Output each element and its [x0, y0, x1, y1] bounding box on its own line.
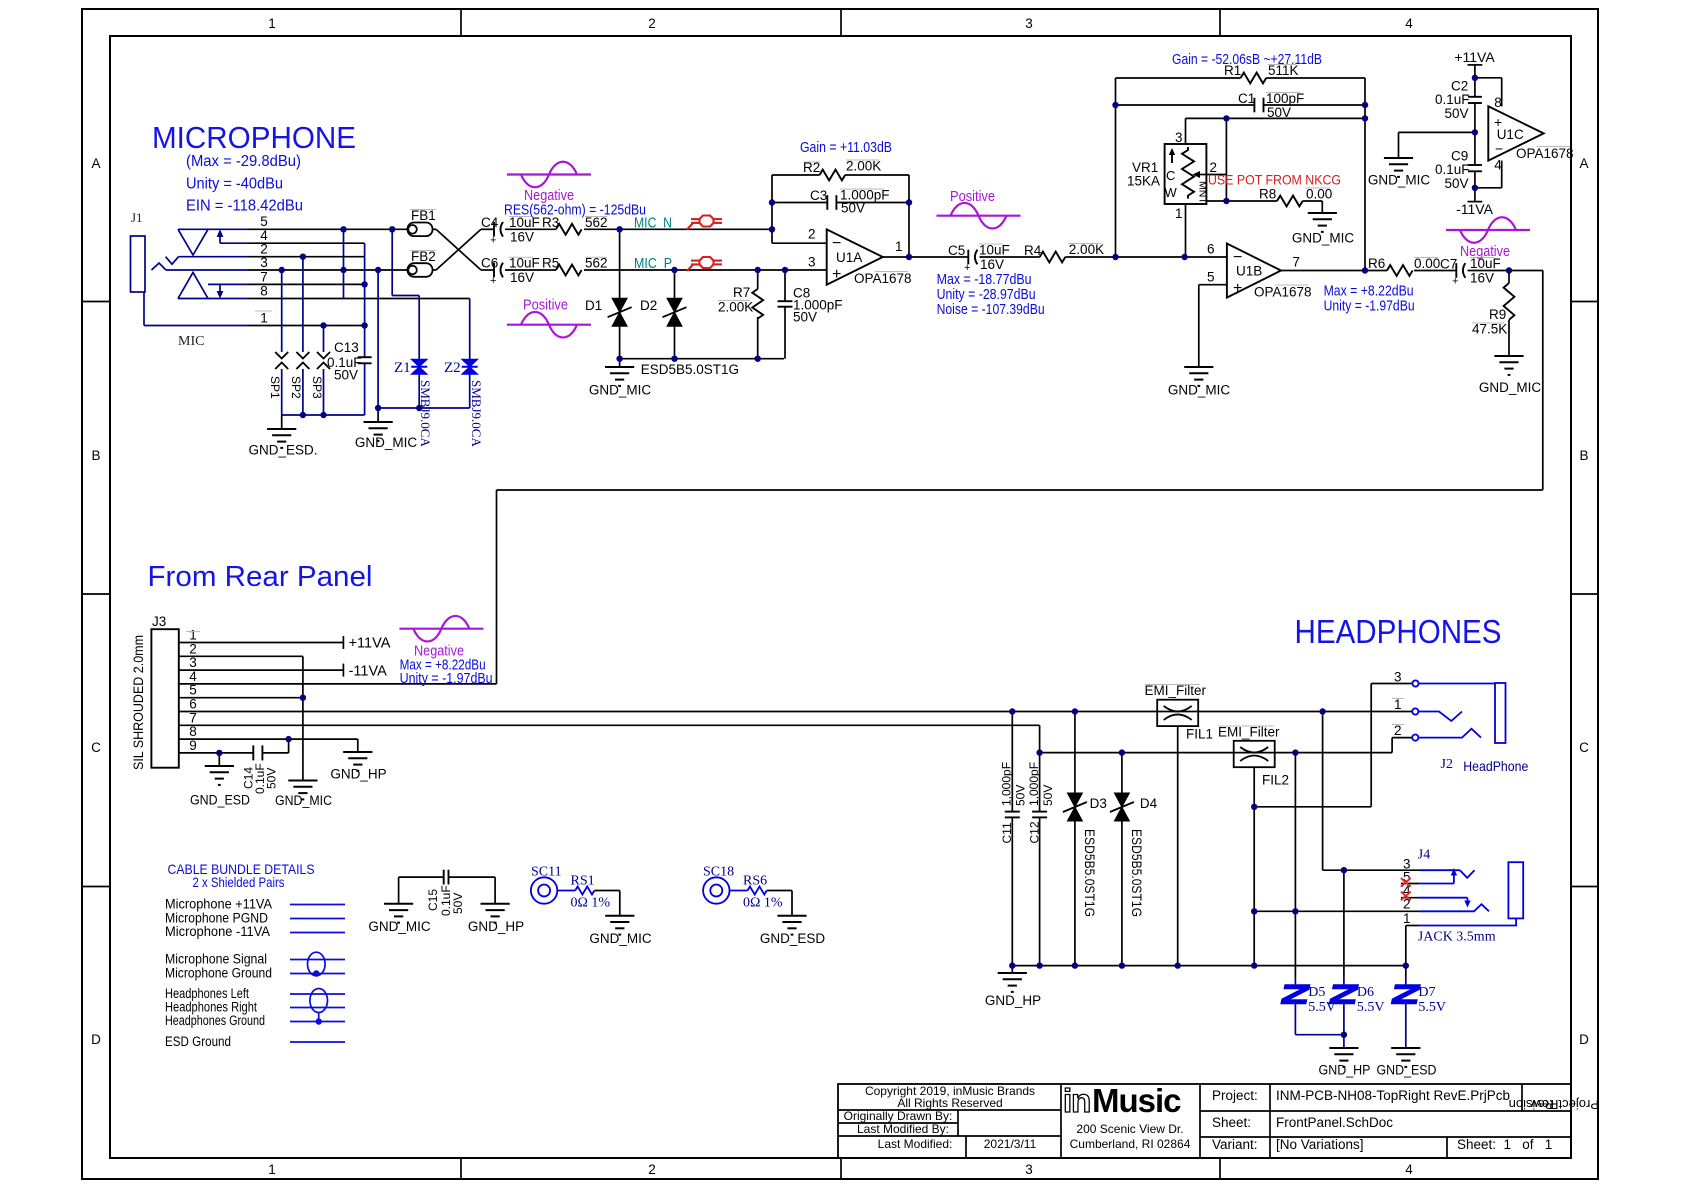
svg-text:Last Modified By:: Last Modified By:: [857, 1122, 949, 1136]
svg-text:B: B: [1579, 448, 1588, 463]
svg-text:Positive: Positive: [950, 188, 995, 205]
svg-text:Variant:: Variant:: [1212, 1137, 1258, 1152]
svg-text:GND_HP: GND_HP: [468, 919, 524, 934]
svg-text:HEADPHONES: HEADPHONES: [1295, 613, 1502, 650]
svg-text:SMBJ9.0CA: SMBJ9.0CA: [418, 380, 433, 447]
svg-text:50V: 50V: [793, 310, 817, 325]
svg-text:EMI_Filter: EMI_Filter: [1218, 725, 1280, 740]
svg-text:Gain = +11.03dB: Gain = +11.03dB: [800, 139, 892, 156]
svg-text:1: 1: [189, 628, 197, 643]
svg-text:5: 5: [1207, 270, 1215, 285]
svg-text:FB2: FB2: [411, 249, 436, 264]
svg-text:Microphone +11VA: Microphone +11VA: [165, 897, 272, 912]
svg-text:Last Modified:: Last Modified:: [878, 1137, 953, 1151]
svg-text:GND_MIC: GND_MIC: [1479, 380, 1542, 395]
svg-text:50V: 50V: [265, 768, 279, 789]
svg-text:16V: 16V: [980, 257, 1004, 272]
svg-text:C: C: [91, 740, 101, 755]
svg-text:0Ω 1%: 0Ω 1%: [571, 896, 611, 911]
svg-text:OPA1678: OPA1678: [1254, 285, 1312, 300]
svg-text:1: 1: [1403, 911, 1411, 926]
svg-text:-11VA: -11VA: [349, 663, 387, 679]
svg-text:RS6: RS6: [743, 874, 767, 889]
svg-text:3: 3: [1175, 130, 1183, 145]
svg-text:All Rights Reserved: All Rights Reserved: [897, 1096, 1002, 1110]
svg-text:8: 8: [1494, 95, 1502, 110]
svg-text:ESD5B5.0ST1G: ESD5B5.0ST1G: [1129, 829, 1144, 917]
svg-text:D7: D7: [1418, 985, 1435, 1000]
svg-text:R6: R6: [1368, 256, 1385, 271]
svg-text:50V: 50V: [1445, 106, 1469, 121]
svg-text:GND_MIC: GND_MIC: [355, 435, 418, 450]
svg-text:50V: 50V: [1445, 176, 1469, 191]
svg-text:GND_HP: GND_HP: [985, 993, 1041, 1008]
svg-text:+: +: [490, 275, 496, 287]
svg-text:−: −: [1495, 141, 1503, 157]
svg-text:R4: R4: [1024, 243, 1042, 258]
svg-text:FIL1: FIL1: [1186, 727, 1213, 742]
svg-text:C4: C4: [481, 215, 499, 230]
svg-text:2: 2: [1394, 723, 1402, 738]
svg-text:C15: C15: [426, 889, 440, 911]
svg-text:From Rear Panel: From Rear Panel: [148, 561, 373, 593]
svg-text:2.00K: 2.00K: [718, 300, 753, 315]
svg-text:J2: J2: [1441, 757, 1453, 772]
svg-text:W: W: [1165, 185, 1178, 200]
svg-text:MNT: MNT: [1197, 181, 1209, 204]
svg-text:0.00: 0.00: [1306, 187, 1332, 202]
svg-text:GND_MIC: GND_MIC: [275, 793, 332, 808]
svg-text:1: 1: [268, 16, 276, 31]
svg-text:50V: 50V: [451, 893, 465, 914]
svg-text:4: 4: [1405, 1162, 1413, 1177]
svg-text:4: 4: [189, 669, 197, 684]
svg-text:Music: Music: [1092, 1082, 1181, 1119]
svg-text:6: 6: [1207, 242, 1215, 257]
svg-text:2: 2: [648, 1162, 656, 1177]
svg-text:R9: R9: [1489, 307, 1506, 322]
svg-text:Rev: Rev: [1530, 1097, 1554, 1112]
svg-text:Z2: Z2: [444, 360, 461, 376]
svg-text:Unity = -1.97dBu: Unity = -1.97dBu: [1324, 298, 1415, 315]
svg-text:Positive: Positive: [523, 297, 568, 314]
svg-text:-11VA: -11VA: [1456, 201, 1493, 217]
svg-text:4: 4: [1405, 16, 1413, 31]
svg-text:INM-PCB-NH08-TopRight RevE.Prj: INM-PCB-NH08-TopRight RevE.PrjPcb: [1276, 1088, 1510, 1103]
svg-text:R8: R8: [1259, 187, 1276, 202]
svg-text:OPA1678: OPA1678: [1516, 146, 1574, 161]
svg-text:SMBJ9.0CA: SMBJ9.0CA: [469, 380, 484, 447]
svg-text:7: 7: [1292, 255, 1300, 270]
svg-text:+: +: [832, 266, 841, 283]
svg-text:6: 6: [189, 697, 197, 712]
svg-text:8: 8: [189, 724, 197, 739]
svg-text:USE POT FROM NKCG: USE POT FROM NKCG: [1208, 172, 1341, 188]
svg-text:C13: C13: [334, 340, 359, 355]
svg-text:A: A: [1579, 156, 1588, 171]
svg-text:Microphone Ground: Microphone Ground: [165, 966, 272, 981]
svg-text:FrontPanel.SchDoc: FrontPanel.SchDoc: [1276, 1115, 1393, 1130]
svg-text:JACK 3.5mm: JACK 3.5mm: [1418, 930, 1496, 945]
svg-text:Sheet: 1 of 1: Sheet: 1 of 1: [1457, 1137, 1552, 1152]
svg-text:MICROPHONE: MICROPHONE: [152, 120, 356, 155]
svg-text:1: 1: [895, 239, 903, 254]
svg-text:D2: D2: [640, 298, 657, 313]
svg-text:Originally Drawn By:: Originally Drawn By:: [844, 1109, 953, 1123]
svg-text:50V: 50V: [334, 368, 358, 383]
svg-text:Z1: Z1: [394, 360, 411, 376]
svg-text:[No Variations]: [No Variations]: [1276, 1137, 1364, 1152]
svg-text:16V: 16V: [510, 230, 534, 245]
svg-text:2.00K: 2.00K: [846, 159, 881, 174]
svg-text:in: in: [1063, 1082, 1090, 1119]
svg-text:GND_ESD: GND_ESD: [190, 793, 250, 808]
svg-text:+: +: [1233, 280, 1242, 297]
svg-text:GND_ESD.: GND_ESD.: [248, 443, 317, 458]
svg-text:C1: C1: [1238, 91, 1255, 106]
svg-text:J4: J4: [1418, 848, 1430, 863]
svg-text:50V: 50V: [1267, 105, 1291, 120]
svg-text:15KA: 15KA: [1127, 174, 1160, 189]
svg-text:EMI_Filter: EMI_Filter: [1145, 683, 1207, 698]
svg-text:Negative: Negative: [1460, 243, 1510, 260]
svg-text:GND_HP: GND_HP: [1319, 1063, 1371, 1078]
svg-text:1: 1: [1175, 206, 1183, 221]
svg-text:D: D: [1579, 1032, 1589, 1047]
svg-text:C: C: [1579, 740, 1589, 755]
svg-text:0Ω 1%: 0Ω 1%: [743, 896, 783, 911]
svg-text:U1C: U1C: [1497, 127, 1524, 142]
svg-text:GND_HP: GND_HP: [330, 767, 386, 782]
svg-text:200 Scenic View Dr.: 200 Scenic View Dr.: [1076, 1122, 1183, 1136]
svg-text:A: A: [91, 156, 100, 171]
svg-text:Cumberland, RI 02864: Cumberland, RI 02864: [1070, 1137, 1191, 1151]
svg-text:ESD5B5.0ST1G: ESD5B5.0ST1G: [641, 362, 739, 377]
svg-text:MIC: MIC: [178, 334, 204, 349]
svg-text:4: 4: [1494, 158, 1502, 173]
svg-text:C: C: [1166, 168, 1175, 183]
svg-text:EIN = -118.42dBu: EIN = -118.42dBu: [186, 198, 303, 215]
svg-text:GND_ESD: GND_ESD: [1377, 1063, 1437, 1078]
svg-text:5: 5: [260, 214, 268, 229]
svg-text:2.00K: 2.00K: [1069, 242, 1104, 257]
svg-text:B: B: [91, 448, 100, 463]
svg-text:ESD Ground: ESD Ground: [165, 1034, 231, 1049]
svg-text:2: 2: [808, 227, 816, 242]
svg-text:D4: D4: [1140, 796, 1158, 811]
svg-text:C6: C6: [481, 256, 498, 271]
svg-text:1: 1: [1394, 697, 1402, 712]
svg-text:C7: C7: [1440, 257, 1457, 272]
svg-text:Project:: Project:: [1212, 1088, 1258, 1103]
svg-text:2021/3/11: 2021/3/11: [984, 1137, 1037, 1151]
svg-text:Microphone -11VA: Microphone -11VA: [165, 924, 270, 939]
svg-text:3: 3: [189, 655, 197, 670]
svg-text:0.00: 0.00: [1414, 256, 1440, 271]
svg-text:Noise = -107.39dBu: Noise = -107.39dBu: [937, 301, 1045, 318]
svg-text:GND_MIC: GND_MIC: [1168, 383, 1231, 398]
svg-text:R5: R5: [542, 256, 559, 271]
svg-text:5: 5: [189, 683, 197, 698]
svg-text:Unity = -1.97dBu: Unity = -1.97dBu: [400, 670, 493, 687]
svg-text:J1: J1: [131, 210, 143, 225]
svg-text:C3: C3: [810, 188, 827, 203]
svg-text:5.5V: 5.5V: [1418, 1000, 1446, 1015]
svg-text:50V: 50V: [1014, 785, 1028, 806]
svg-text:10uF: 10uF: [979, 243, 1010, 258]
svg-text:(Max = -29.8dBu): (Max = -29.8dBu): [186, 153, 301, 170]
svg-text:+11VA: +11VA: [349, 636, 391, 652]
svg-text:100pF: 100pF: [1266, 91, 1304, 106]
svg-text:Headphones Ground: Headphones Ground: [165, 1013, 265, 1028]
svg-text:FB1: FB1: [411, 208, 436, 223]
svg-text:R7: R7: [733, 285, 750, 300]
svg-text:GND_MIC: GND_MIC: [368, 919, 431, 934]
svg-text:16V: 16V: [1470, 271, 1494, 286]
svg-text:8: 8: [260, 284, 268, 299]
svg-text:D: D: [91, 1032, 101, 1047]
svg-text:MIC P: MIC P: [634, 256, 672, 272]
svg-text:10uF: 10uF: [509, 256, 540, 271]
svg-text:3: 3: [808, 255, 816, 270]
svg-text:2 x Shielded Pairs: 2 x Shielded Pairs: [193, 874, 285, 890]
svg-text:7: 7: [260, 270, 268, 285]
svg-text:9: 9: [189, 738, 197, 753]
svg-text:+11VA: +11VA: [1454, 49, 1495, 65]
svg-text:3: 3: [1025, 1162, 1033, 1177]
svg-text:562: 562: [585, 256, 608, 271]
svg-text:Microphone Signal: Microphone Signal: [165, 952, 267, 967]
svg-text:SP3: SP3: [310, 376, 324, 399]
svg-text:16V: 16V: [510, 270, 534, 285]
svg-text:+: +: [490, 235, 496, 247]
svg-text:50V: 50V: [841, 201, 865, 216]
svg-text:GND_ESD: GND_ESD: [760, 931, 826, 946]
svg-text:Gain = -52.06sB ~+27.11dB: Gain = -52.06sB ~+27.11dB: [1172, 51, 1322, 68]
svg-text:J3: J3: [152, 614, 166, 629]
svg-text:+: +: [1452, 276, 1458, 288]
svg-text:GND_MIC: GND_MIC: [589, 383, 652, 398]
svg-text:2: 2: [648, 16, 656, 31]
svg-text:D3: D3: [1090, 796, 1107, 811]
svg-text:C11: C11: [1000, 822, 1014, 843]
svg-text:GND_MIC: GND_MIC: [589, 931, 652, 946]
svg-text:0.1uF: 0.1uF: [1435, 92, 1470, 107]
svg-text:SC11: SC11: [531, 865, 562, 880]
svg-text:OPA1678: OPA1678: [854, 271, 912, 286]
svg-text:Unity = -40dBu: Unity = -40dBu: [186, 176, 283, 193]
svg-text:R1: R1: [1224, 63, 1241, 78]
svg-text:3: 3: [1394, 670, 1402, 685]
svg-text:RS1: RS1: [571, 874, 595, 889]
svg-text:5.5V: 5.5V: [1308, 1000, 1336, 1015]
svg-text:SIL SHROUDED 2.0mm: SIL SHROUDED 2.0mm: [131, 635, 146, 770]
svg-text:RES(562-ohm) = -125dBu: RES(562-ohm) = -125dBu: [504, 202, 646, 219]
svg-text:C12: C12: [1027, 821, 1041, 843]
svg-text:GND_MIC: GND_MIC: [1292, 231, 1355, 246]
svg-text:C5: C5: [948, 243, 965, 258]
svg-text:SC18: SC18: [703, 865, 734, 880]
svg-text:FIL2: FIL2: [1262, 773, 1289, 788]
svg-text:ESD5B5.0ST1G: ESD5B5.0ST1G: [1082, 829, 1097, 917]
svg-text:GND_MIC: GND_MIC: [1368, 173, 1431, 188]
svg-text:5.5V: 5.5V: [1357, 1000, 1385, 1015]
svg-text:3: 3: [1025, 16, 1033, 31]
svg-text:1,000pF: 1,000pF: [1027, 762, 1041, 806]
svg-text:7: 7: [189, 710, 197, 725]
svg-text:SP2: SP2: [289, 376, 303, 399]
svg-text:SP1: SP1: [268, 376, 282, 399]
svg-text:1: 1: [260, 311, 268, 326]
svg-text:HeadPhone: HeadPhone: [1463, 758, 1528, 774]
svg-text:1,000pF: 1,000pF: [1000, 762, 1014, 806]
svg-text:Sheet:: Sheet:: [1212, 1115, 1251, 1130]
svg-text:50V: 50V: [1041, 785, 1055, 806]
svg-text:47.5K: 47.5K: [1472, 322, 1507, 337]
svg-text:0.1uF: 0.1uF: [1435, 162, 1470, 177]
svg-text:D6: D6: [1357, 985, 1374, 1000]
svg-text:511K: 511K: [1268, 63, 1299, 78]
svg-text:D5: D5: [1308, 985, 1325, 1000]
svg-text:U1B: U1B: [1236, 264, 1262, 279]
svg-text:D1: D1: [585, 298, 602, 313]
svg-text:U1A: U1A: [836, 250, 862, 265]
svg-text:2: 2: [189, 641, 197, 656]
svg-text:1: 1: [268, 1162, 276, 1177]
